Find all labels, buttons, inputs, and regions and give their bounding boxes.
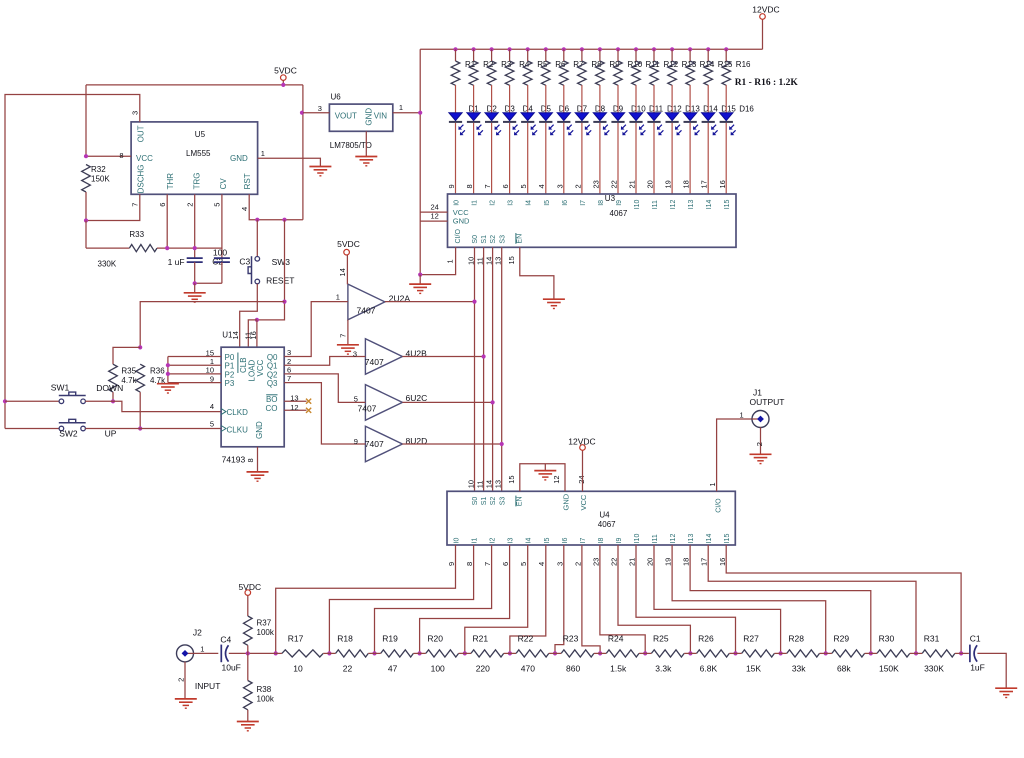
svg-text:I1: I1 <box>472 200 479 206</box>
svg-text:1: 1 <box>708 482 717 486</box>
svg-text:D14: D14 <box>703 104 718 113</box>
svg-text:5VDC: 5VDC <box>238 582 261 592</box>
svg-text:CLKD: CLKD <box>227 408 249 417</box>
svg-text:I1: I1 <box>472 537 479 543</box>
svg-text:I0: I0 <box>454 537 461 543</box>
svg-text:22: 22 <box>343 664 353 674</box>
svg-text:1uF: 1uF <box>970 662 985 672</box>
svg-text:I12: I12 <box>670 534 677 544</box>
svg-text:1: 1 <box>399 103 403 112</box>
svg-text:I2: I2 <box>490 537 497 543</box>
svg-text:22: 22 <box>610 180 619 188</box>
svg-text:5: 5 <box>210 419 214 428</box>
svg-text:3: 3 <box>287 348 291 357</box>
svg-text:BO: BO <box>266 395 278 404</box>
svg-text:19: 19 <box>664 558 673 566</box>
svg-text:15: 15 <box>507 475 516 483</box>
svg-text:2: 2 <box>573 184 582 188</box>
svg-text:860: 860 <box>566 664 580 674</box>
svg-text:1: 1 <box>261 149 265 158</box>
svg-text:I15: I15 <box>724 199 731 209</box>
svg-text:U6: U6 <box>331 92 342 101</box>
svg-text:220: 220 <box>476 664 490 674</box>
svg-text:15: 15 <box>507 256 516 264</box>
svg-text:GND: GND <box>453 217 470 226</box>
svg-text:OUTPUT: OUTPUT <box>750 397 785 407</box>
svg-text:CI/O: CI/O <box>455 229 462 244</box>
svg-text:330K: 330K <box>924 664 944 674</box>
svg-text:VCC: VCC <box>579 494 588 510</box>
svg-text:8: 8 <box>119 151 123 160</box>
svg-text:LM555: LM555 <box>186 149 211 158</box>
svg-text:CLKU: CLKU <box>227 425 249 434</box>
svg-text:R1 - R16 : 1.2K: R1 - R16 : 1.2K <box>735 78 799 88</box>
svg-text:R19: R19 <box>382 634 398 644</box>
svg-text:3: 3 <box>555 562 564 566</box>
svg-text:I4: I4 <box>526 537 533 543</box>
svg-text:Q3: Q3 <box>267 379 278 388</box>
svg-text:CO: CO <box>266 404 278 413</box>
svg-text:D13: D13 <box>685 104 700 113</box>
svg-text:9: 9 <box>210 374 214 383</box>
svg-text:2: 2 <box>755 442 764 446</box>
svg-text:10: 10 <box>206 366 214 375</box>
svg-text:33k: 33k <box>792 664 806 674</box>
svg-text:9: 9 <box>447 184 456 188</box>
svg-text:8: 8 <box>246 458 255 462</box>
svg-text:I3: I3 <box>508 200 515 206</box>
svg-text:9: 9 <box>447 562 456 566</box>
svg-text:19: 19 <box>664 180 673 188</box>
svg-text:23: 23 <box>591 558 600 566</box>
svg-text:18: 18 <box>682 558 691 566</box>
svg-text:I2: I2 <box>490 200 497 206</box>
svg-text:I9: I9 <box>616 200 623 206</box>
svg-text:17: 17 <box>700 558 709 566</box>
svg-text:S0: S0 <box>472 497 479 506</box>
svg-text:I6: I6 <box>562 200 569 206</box>
svg-text:20: 20 <box>646 558 655 566</box>
svg-text:R35: R35 <box>121 366 136 375</box>
svg-text:SW1: SW1 <box>51 383 70 393</box>
svg-text:I11: I11 <box>652 534 659 543</box>
svg-text:R17: R17 <box>288 634 304 644</box>
svg-text:100: 100 <box>213 247 227 257</box>
svg-text:DOWN: DOWN <box>96 383 123 393</box>
svg-text:6: 6 <box>287 366 291 375</box>
svg-text:1 uF: 1 uF <box>168 257 185 267</box>
svg-text:D10: D10 <box>631 104 646 113</box>
svg-text:S1: S1 <box>481 497 488 506</box>
svg-text:VOUT: VOUT <box>335 112 357 121</box>
svg-text:R31: R31 <box>924 634 940 644</box>
svg-text:I5: I5 <box>544 200 551 206</box>
svg-text:7: 7 <box>483 184 492 188</box>
svg-text:100k: 100k <box>257 628 275 637</box>
svg-text:1: 1 <box>446 259 455 263</box>
svg-text:3: 3 <box>555 184 564 188</box>
svg-text:150K: 150K <box>91 174 110 183</box>
svg-text:6: 6 <box>158 203 167 207</box>
svg-text:S0: S0 <box>472 235 479 244</box>
svg-text:I10: I10 <box>634 199 641 209</box>
svg-text:R30: R30 <box>879 634 895 644</box>
svg-text:4: 4 <box>537 562 546 566</box>
svg-text:R11: R11 <box>646 60 661 69</box>
svg-text:VCC: VCC <box>256 359 265 376</box>
svg-text:D16: D16 <box>739 104 754 113</box>
svg-text:R29: R29 <box>834 634 850 644</box>
svg-text:R32: R32 <box>91 165 106 174</box>
svg-text:R18: R18 <box>337 634 353 644</box>
svg-text:4: 4 <box>210 402 214 411</box>
svg-text:R23: R23 <box>563 634 579 644</box>
svg-text:21: 21 <box>628 558 637 566</box>
svg-text:14: 14 <box>485 480 494 488</box>
svg-text:I7: I7 <box>580 200 587 206</box>
svg-text:8: 8 <box>465 562 474 566</box>
svg-text:16: 16 <box>718 558 727 566</box>
svg-text:14: 14 <box>338 268 347 276</box>
svg-text:I10: I10 <box>634 534 641 544</box>
svg-text:U4: U4 <box>599 511 610 520</box>
svg-text:J2: J2 <box>193 628 202 638</box>
svg-text:VIN: VIN <box>374 112 388 121</box>
svg-text:15: 15 <box>206 348 214 357</box>
svg-text:R13: R13 <box>682 60 697 69</box>
svg-text:6: 6 <box>501 184 510 188</box>
svg-text:R25: R25 <box>653 634 669 644</box>
svg-text:I15: I15 <box>724 534 731 544</box>
svg-text:I14: I14 <box>706 199 713 209</box>
svg-text:7: 7 <box>483 562 492 566</box>
svg-text:I3: I3 <box>508 537 515 543</box>
svg-text:I13: I13 <box>688 199 695 209</box>
svg-text:15K: 15K <box>746 664 761 674</box>
svg-text:20: 20 <box>646 180 655 188</box>
svg-text:R22: R22 <box>518 634 534 644</box>
svg-text:7407: 7407 <box>365 357 384 367</box>
svg-text:17: 17 <box>700 180 709 188</box>
svg-text:I13: I13 <box>688 534 695 544</box>
svg-text:I14: I14 <box>706 534 713 544</box>
svg-text:14: 14 <box>231 331 240 339</box>
svg-text:R15: R15 <box>718 60 733 69</box>
svg-text:C3: C3 <box>239 256 250 266</box>
svg-text:R24: R24 <box>608 634 624 644</box>
svg-text:5: 5 <box>519 184 528 188</box>
svg-text:S2: S2 <box>490 497 497 506</box>
svg-text:P1: P1 <box>225 362 235 371</box>
svg-text:5: 5 <box>519 562 528 566</box>
svg-text:VCC: VCC <box>136 154 153 163</box>
svg-text:R16: R16 <box>736 60 751 69</box>
svg-text:7: 7 <box>287 374 291 383</box>
svg-text:100: 100 <box>431 664 445 674</box>
svg-text:Q2: Q2 <box>267 370 278 379</box>
svg-text:P0: P0 <box>225 353 235 362</box>
svg-text:I8: I8 <box>598 537 605 543</box>
svg-text:5: 5 <box>213 203 222 207</box>
svg-text:P2: P2 <box>225 370 235 379</box>
svg-text:3: 3 <box>131 111 140 115</box>
svg-text:TRG: TRG <box>192 173 201 190</box>
svg-text:R36: R36 <box>150 366 165 375</box>
svg-text:10: 10 <box>293 664 303 674</box>
svg-text:I0: I0 <box>454 200 461 206</box>
svg-text:R27: R27 <box>743 634 759 644</box>
svg-text:7: 7 <box>131 203 140 207</box>
svg-text:CV: CV <box>219 178 228 190</box>
svg-text:SW2: SW2 <box>59 428 78 438</box>
svg-text:R37: R37 <box>257 619 272 628</box>
svg-text:Q1: Q1 <box>267 362 278 371</box>
svg-text:U5: U5 <box>195 130 206 139</box>
svg-text:12VDC: 12VDC <box>568 436 595 446</box>
svg-text:I6: I6 <box>562 537 569 543</box>
svg-text:INPUT: INPUT <box>195 681 221 691</box>
svg-text:24: 24 <box>430 203 438 212</box>
svg-text:I12: I12 <box>670 199 677 209</box>
svg-text:DSCHG: DSCHG <box>137 165 146 194</box>
svg-text:22: 22 <box>610 558 619 566</box>
svg-text:2: 2 <box>287 357 291 366</box>
svg-text:RESET: RESET <box>266 275 294 285</box>
svg-text:D12: D12 <box>667 104 682 113</box>
svg-text:16: 16 <box>718 180 727 188</box>
svg-text:4: 4 <box>537 184 546 188</box>
svg-text:EN: EN <box>517 234 524 244</box>
svg-text:5VDC: 5VDC <box>274 65 297 75</box>
svg-text:R26: R26 <box>698 634 714 644</box>
svg-text:470: 470 <box>521 664 535 674</box>
svg-text:C4: C4 <box>220 634 231 644</box>
svg-text:S3: S3 <box>499 497 506 506</box>
svg-text:10uF: 10uF <box>222 663 241 673</box>
svg-text:1: 1 <box>336 293 340 302</box>
svg-text:GND: GND <box>364 108 373 126</box>
svg-text:11: 11 <box>476 481 485 489</box>
svg-text:7: 7 <box>339 334 348 338</box>
svg-text:I11: I11 <box>652 200 659 209</box>
svg-text:7407: 7407 <box>365 439 384 449</box>
svg-text:2: 2 <box>176 678 185 682</box>
svg-text:S2: S2 <box>490 235 497 244</box>
svg-text:21: 21 <box>628 180 637 188</box>
svg-text:7407: 7407 <box>358 404 377 414</box>
svg-text:10: 10 <box>467 480 476 488</box>
svg-text:C1: C1 <box>970 634 981 644</box>
svg-text:2: 2 <box>186 203 195 207</box>
svg-text:R10: R10 <box>628 60 643 69</box>
svg-text:RST: RST <box>243 173 252 189</box>
svg-text:4067: 4067 <box>610 209 628 218</box>
svg-text:2: 2 <box>573 562 582 566</box>
svg-text:THR: THR <box>166 173 175 190</box>
svg-text:R21: R21 <box>473 634 489 644</box>
svg-text:1: 1 <box>200 644 204 653</box>
svg-text:S3: S3 <box>499 235 506 244</box>
svg-text:3: 3 <box>353 349 357 358</box>
svg-text:R14: R14 <box>700 60 715 69</box>
svg-text:68k: 68k <box>837 664 851 674</box>
svg-text:I9: I9 <box>616 537 623 543</box>
svg-text:EN: EN <box>517 496 524 506</box>
svg-text:4.7k: 4.7k <box>121 376 137 385</box>
svg-text:4067: 4067 <box>598 520 616 529</box>
svg-text:100k: 100k <box>257 695 275 704</box>
svg-text:3: 3 <box>318 104 322 113</box>
svg-text:GND: GND <box>562 493 571 510</box>
svg-text:13: 13 <box>290 394 298 403</box>
svg-text:I4: I4 <box>526 200 533 206</box>
svg-text:16: 16 <box>249 331 258 339</box>
svg-text:CI/O: CI/O <box>715 498 722 513</box>
svg-text:74193: 74193 <box>222 454 246 464</box>
svg-text:SW3: SW3 <box>272 257 291 267</box>
svg-text:GND: GND <box>255 421 264 439</box>
svg-text:LM7805/TO: LM7805/TO <box>330 141 372 150</box>
svg-text:13: 13 <box>494 480 503 488</box>
svg-text:R20: R20 <box>427 634 443 644</box>
svg-text:I7: I7 <box>580 537 587 543</box>
svg-text:1.5k: 1.5k <box>610 664 627 674</box>
svg-text:4: 4 <box>240 207 249 211</box>
svg-text:1: 1 <box>740 411 744 420</box>
svg-text:150K: 150K <box>879 664 899 674</box>
svg-text:18: 18 <box>682 180 691 188</box>
svg-text:12: 12 <box>290 403 298 412</box>
svg-text:GND: GND <box>230 154 248 163</box>
svg-text:47: 47 <box>388 664 398 674</box>
svg-text:12: 12 <box>430 212 438 221</box>
svg-text:9: 9 <box>354 437 358 446</box>
svg-text:Q0: Q0 <box>267 353 278 362</box>
svg-text:I5: I5 <box>544 537 551 543</box>
svg-text:7407: 7407 <box>357 306 376 316</box>
svg-text:8: 8 <box>465 184 474 188</box>
svg-text:23: 23 <box>591 180 600 188</box>
svg-text:24: 24 <box>577 475 586 483</box>
svg-text:R38: R38 <box>257 685 272 694</box>
svg-text:12VDC: 12VDC <box>752 4 779 14</box>
svg-text:6.8K: 6.8K <box>700 664 718 674</box>
svg-text:1: 1 <box>210 357 214 366</box>
svg-text:R12: R12 <box>664 60 679 69</box>
svg-text:3.3k: 3.3k <box>655 664 672 674</box>
svg-text:12: 12 <box>552 475 561 483</box>
svg-text:R28: R28 <box>788 634 804 644</box>
svg-text:6: 6 <box>501 562 510 566</box>
svg-text:R33: R33 <box>129 230 144 239</box>
svg-text:D15: D15 <box>721 104 736 113</box>
svg-text:S1: S1 <box>481 235 488 244</box>
svg-text:OUT: OUT <box>137 125 146 142</box>
svg-text:6U2C: 6U2C <box>406 393 428 403</box>
svg-text:5: 5 <box>354 395 358 404</box>
svg-text:U3: U3 <box>605 194 616 203</box>
svg-text:330K: 330K <box>98 260 117 269</box>
svg-text:D11: D11 <box>649 104 664 113</box>
svg-text:UP: UP <box>105 429 117 439</box>
svg-text:P3: P3 <box>225 379 235 388</box>
svg-text:5VDC: 5VDC <box>337 239 360 249</box>
